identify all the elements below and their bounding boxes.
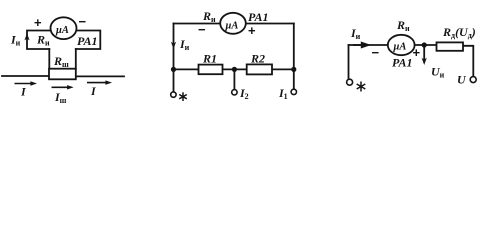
svg-text:Uи: Uи	[431, 65, 445, 80]
wire: top wire from left corner to meter	[174, 23, 221, 25]
node: arrowhead of current Iu entering meter (up arrow on left edge)	[24, 33, 29, 40]
svg-text:R1: R1	[202, 52, 217, 66]
wire: meter to junction and Rd box	[415, 44, 437, 46]
resistor R1	[199, 65, 223, 75]
svg-text:PA1: PA1	[248, 10, 268, 24]
svg-text:+: +	[34, 15, 42, 30]
node: open terminal I2	[232, 90, 237, 95]
wire: left vertical down to common terminal	[348, 45, 350, 79]
wire: right vertical from meter down to bottom wire	[293, 24, 295, 70]
capacitor-like: microammeter circle uA (middle)	[220, 13, 246, 34]
node: junction dot right	[291, 67, 296, 72]
svg-text:I1: I1	[278, 86, 288, 101]
resistor R2	[247, 64, 272, 74]
node: open terminal I1	[291, 89, 296, 94]
node: open terminal U	[470, 77, 476, 83]
svg-text:Rи: Rи	[396, 18, 410, 33]
svg-text:Iш: Iш	[54, 90, 67, 105]
node: arrowhead of Iu pointing down	[171, 42, 176, 49]
svg-text:μA: μA	[393, 42, 407, 53]
resistor Rsh (shunt box on main line)	[49, 69, 76, 80]
wire: bottom wire segment between R1 and R2	[223, 68, 247, 70]
svg-text:Rи: Rи	[36, 33, 50, 48]
wire: right vertical from meter box to shunt	[75, 49, 77, 69]
svg-text:R2: R2	[250, 52, 265, 66]
svg-text:μA: μA	[225, 21, 239, 32]
svg-text:I2: I2	[239, 86, 249, 101]
wire: bottom wire segment left	[174, 68, 199, 70]
svg-text:I: I	[90, 84, 97, 98]
arrow: voltage Uu down arrow	[423, 48, 425, 61]
node: junction dot at meter output	[422, 42, 427, 47]
node: open terminal common star (right circuit)	[347, 79, 353, 85]
node: junction dot left	[171, 67, 176, 72]
svg-text:+: +	[248, 23, 256, 38]
svg-text:μA: μA	[55, 25, 69, 36]
wire: stub to terminal I2	[233, 69, 235, 89]
svg-text:Iи: Iи	[350, 26, 361, 41]
arrow: current I left below wire	[15, 83, 34, 85]
star mark at common terminal (middle)	[179, 92, 187, 101]
wire: left vertical from meter box to shunt	[48, 49, 50, 69]
wire: left vertical with current arrow Iu	[173, 24, 175, 70]
wire: stub to terminal I1	[293, 69, 295, 89]
node: open terminal common (star)	[171, 92, 176, 97]
capacitor-like: microammeter circle uA (right)	[388, 35, 415, 55]
arrow: current Ish below shunt	[52, 86, 70, 88]
svg-text:−: −	[79, 14, 87, 29]
star mark at common terminal (right)	[357, 82, 366, 92]
svg-text:Iи: Iи	[179, 37, 190, 52]
arrow: current I right below wire	[87, 82, 108, 84]
wire: main line right segment	[76, 75, 124, 77]
svg-text:+: +	[413, 45, 421, 60]
resistor Rd (series additional resistor)	[437, 42, 464, 50]
svg-text:Iи: Iи	[10, 33, 21, 48]
wire: Rd box to right corner, down to terminal U	[463, 46, 473, 77]
node: arrowhead of Iu on top wire	[354, 43, 368, 47]
wire: bottom wire segment right of R2	[272, 68, 294, 70]
svg-text:−: −	[372, 45, 380, 60]
svg-text:U: U	[457, 73, 467, 87]
op-amp: meter rectangle PA1 outline (open at bottom centre)	[27, 31, 100, 50]
wire: main line left segment with arrow label I	[2, 75, 49, 77]
svg-text:Rд(Uд): Rд(Uд)	[442, 25, 476, 40]
svg-text:I: I	[20, 85, 27, 99]
wire: stub to common terminal	[173, 69, 175, 91]
wire: top wire from meter to right corner	[246, 23, 294, 25]
wire: top wire from left corner to meter	[349, 44, 388, 46]
svg-text:−: −	[198, 22, 206, 37]
capacitor-like: microammeter circle uA	[51, 17, 77, 39]
svg-text:PA1: PA1	[392, 56, 412, 70]
node: junction dot middle	[232, 67, 237, 72]
svg-text:Rш: Rш	[53, 54, 69, 69]
svg-text:PA1: PA1	[77, 34, 97, 48]
